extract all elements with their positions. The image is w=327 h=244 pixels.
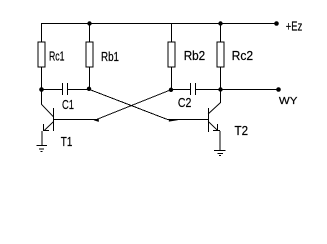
wire Rc2 top lead (220, 23, 222, 43)
wire C1 right lead (68, 89, 90, 91)
resistor Rc1 (38, 42, 45, 67)
node junction Rb1 / C1 / cross wire (87, 87, 91, 91)
wire Rc1 top lead (41, 23, 43, 43)
wire C1 left lead (42, 89, 63, 91)
wire T2 collector lead (220, 90, 222, 104)
wire top supply rail (42, 23, 277, 25)
wire T1 collector lead (41, 90, 43, 105)
node junction top rail / Rb1 (87, 21, 91, 25)
node junction Rc2 / C2 / output / T2 collector (218, 87, 222, 91)
node junction Rc1 / C1 / T1 collector (39, 87, 44, 92)
svg-text:Rb1: Rb1 (101, 50, 119, 64)
svg-text:C2: C2 (178, 96, 192, 110)
svg-text:Rc1: Rc1 (49, 50, 65, 64)
node WY terminal (276, 87, 281, 92)
node junction top rail / Rc2 (218, 21, 222, 25)
wire Rb2 bottom lead (171, 67, 173, 90)
wire C2 left lead (172, 89, 191, 91)
wire C2 right lead (196, 89, 221, 91)
svg-text:C1: C1 (62, 98, 74, 112)
resistor Rb1 (86, 42, 93, 67)
wire Rb1 top lead (89, 23, 91, 43)
wire T1 emitter to ground (41, 131, 43, 145)
capacitor C1 (63, 83, 68, 95)
resistor Rc2 (217, 42, 224, 67)
wire cross-coupling C1 to T2 base (diagonal) (90, 90, 168, 120)
svg-text:T2: T2 (235, 124, 249, 138)
wire Rc1 bottom lead (41, 67, 43, 90)
arrow toward T1 base (94, 119, 99, 122)
node junction Rb2 / C2 / cross wire (169, 88, 173, 92)
wire cross-coupling C2 to T1 base (diagonal) (97, 90, 172, 120)
wire Rc2 bottom lead (220, 67, 222, 90)
svg-text:WY: WY (279, 96, 298, 107)
resistor Rb2 (168, 42, 175, 67)
ground T2 (214, 151, 226, 156)
arrow toward T2 base (169, 119, 178, 122)
wire T2 base segment (168, 119, 209, 121)
node +Ez terminal (274, 21, 279, 26)
wire output rail to WY (221, 89, 279, 91)
svg-text:T1: T1 (61, 135, 73, 149)
transistor T2 (208, 103, 220, 132)
wire T2 emitter to ground (219, 131, 221, 150)
svg-text:Rc2: Rc2 (232, 49, 254, 63)
wire Rb1 bottom lead (89, 67, 91, 90)
transistor T1 (42, 104, 54, 131)
wire Rb2 top lead (171, 23, 173, 43)
capacitor C2 (191, 83, 196, 95)
wire T1 base segment (54, 119, 97, 121)
svg-text:+Ez: +Ez (286, 19, 303, 33)
ground T1 (36, 146, 47, 152)
svg-text:Rb2: Rb2 (184, 49, 206, 63)
